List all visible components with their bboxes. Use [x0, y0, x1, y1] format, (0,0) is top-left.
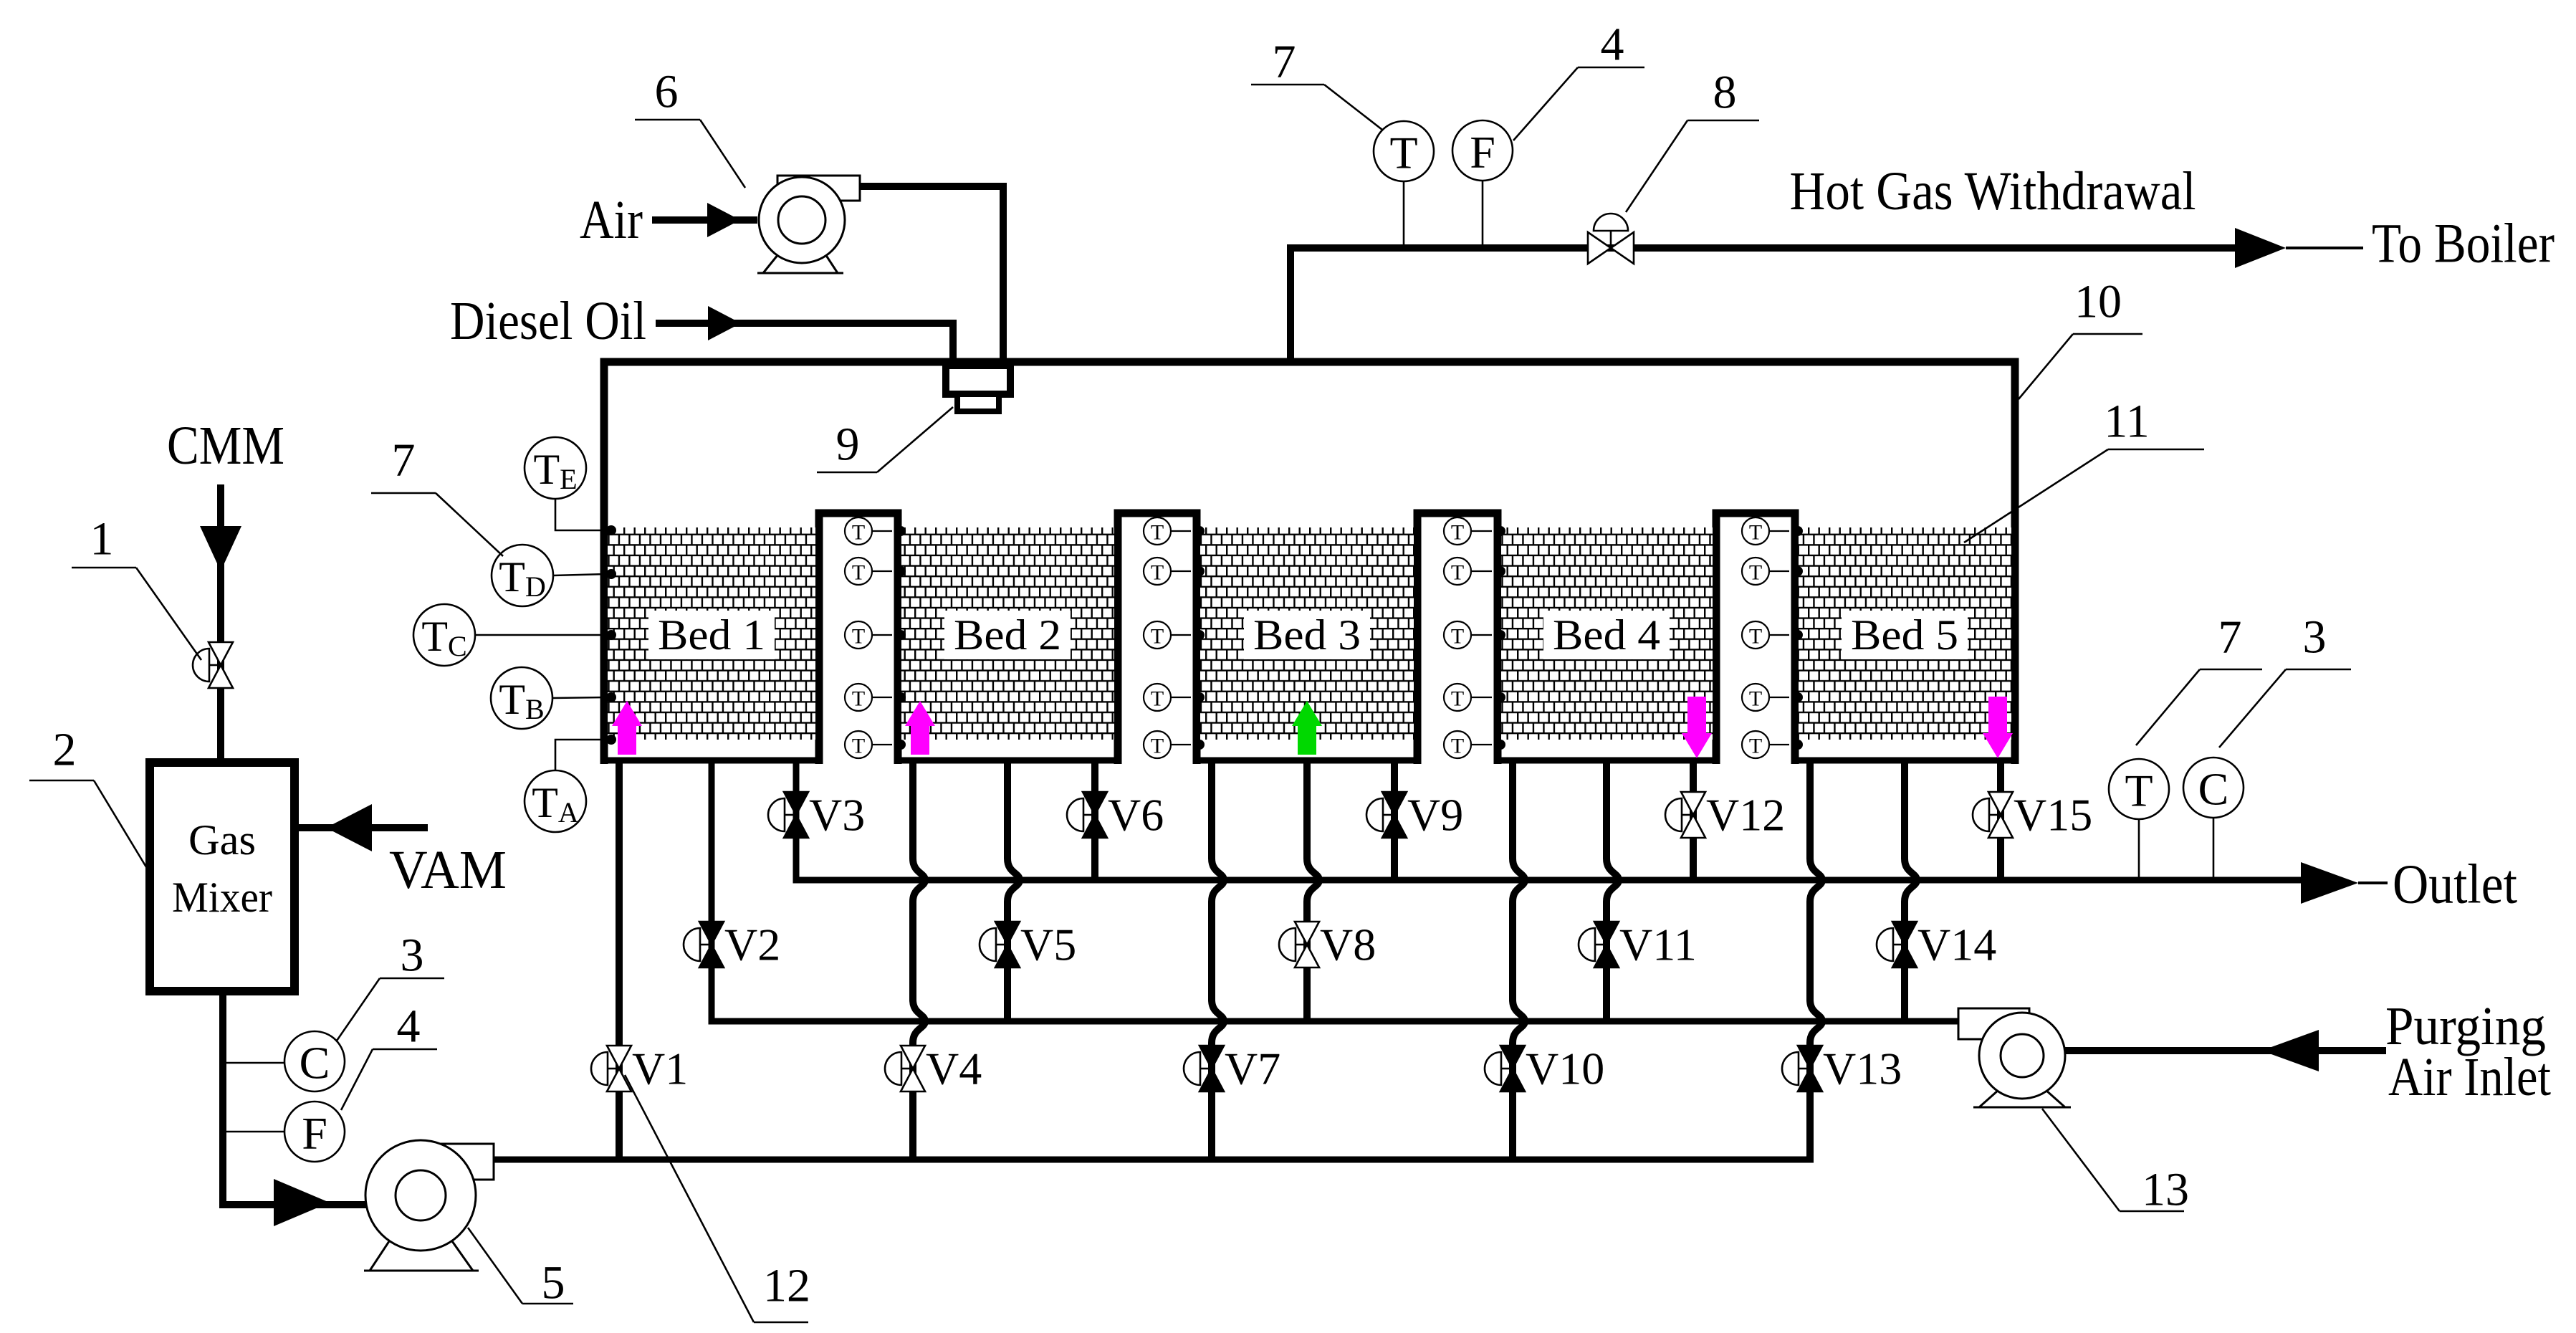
svg-text:5: 5 — [542, 1257, 565, 1309]
svg-text:Bed 5: Bed 5 — [1851, 611, 1958, 659]
svg-text:V7: V7 — [1225, 1043, 1280, 1094]
svg-text:T: T — [1749, 561, 1762, 585]
svg-text:3: 3 — [401, 930, 424, 982]
svg-text:V4: V4 — [926, 1043, 982, 1094]
svg-text:8: 8 — [1713, 67, 1737, 119]
svg-text:9: 9 — [836, 419, 860, 471]
svg-text:T: T — [1749, 687, 1762, 711]
svg-text:7: 7 — [2218, 611, 2242, 664]
svg-text:7: 7 — [1273, 36, 1296, 88]
svg-text:C: C — [300, 1038, 330, 1089]
svg-text:7: 7 — [392, 434, 416, 487]
svg-text:T: T — [1451, 625, 1464, 649]
svg-text:T: T — [1451, 561, 1464, 585]
svg-text:V13: V13 — [1823, 1043, 1902, 1094]
svg-text:Gas: Gas — [188, 816, 256, 864]
svg-text:T: T — [1389, 128, 1417, 178]
svg-text:V11: V11 — [1619, 919, 1697, 970]
svg-text:T: T — [1151, 521, 1164, 545]
svg-text:V1: V1 — [632, 1043, 688, 1094]
svg-text:V8: V8 — [1320, 919, 1376, 970]
svg-text:T: T — [2125, 765, 2153, 816]
svg-text:13: 13 — [2142, 1164, 2189, 1216]
svg-text:F: F — [302, 1108, 327, 1159]
svg-text:Outlet: Outlet — [2393, 853, 2517, 915]
svg-text:To Boiler: To Boiler — [2372, 212, 2555, 274]
svg-text:V6: V6 — [1108, 790, 1164, 841]
svg-text:10: 10 — [2074, 276, 2122, 328]
svg-text:T: T — [852, 687, 865, 711]
svg-text:F: F — [1470, 127, 1495, 178]
svg-text:Air: Air — [580, 190, 643, 250]
svg-text:T: T — [1451, 521, 1464, 545]
svg-text:T: T — [852, 735, 865, 758]
svg-text:T: T — [1151, 735, 1164, 758]
svg-text:T: T — [852, 521, 865, 545]
svg-text:T: T — [1749, 625, 1762, 649]
svg-text:T: T — [1749, 521, 1762, 545]
svg-text:C: C — [2198, 764, 2229, 815]
svg-text:V12: V12 — [1706, 790, 1785, 841]
svg-text:Air Inlet: Air Inlet — [2388, 1047, 2551, 1107]
svg-text:T: T — [1151, 561, 1164, 585]
svg-text:V10: V10 — [1526, 1043, 1604, 1094]
svg-text:Hot Gas Withdrawal: Hot Gas Withdrawal — [1790, 161, 2196, 221]
svg-text:2: 2 — [53, 724, 77, 776]
svg-text:11: 11 — [2104, 396, 2150, 448]
svg-text:T: T — [1151, 687, 1164, 711]
svg-text:T: T — [852, 625, 865, 649]
svg-text:3: 3 — [2303, 611, 2327, 664]
svg-text:V14: V14 — [1917, 919, 1996, 970]
svg-text:12: 12 — [763, 1260, 810, 1312]
svg-text:V2: V2 — [724, 919, 780, 970]
svg-text:V5: V5 — [1020, 919, 1076, 970]
svg-text:Mixer: Mixer — [172, 874, 272, 921]
svg-text:V15: V15 — [2014, 790, 2092, 841]
svg-text:T: T — [1451, 735, 1464, 758]
svg-text:Bed 4: Bed 4 — [1553, 611, 1660, 659]
svg-text:T: T — [852, 561, 865, 585]
svg-text:1: 1 — [90, 513, 114, 565]
svg-text:Bed 3: Bed 3 — [1253, 611, 1361, 659]
svg-text:6: 6 — [655, 66, 679, 118]
svg-text:Bed 1: Bed 1 — [658, 611, 765, 659]
svg-text:T: T — [1151, 625, 1164, 649]
svg-text:Bed 2: Bed 2 — [954, 611, 1061, 659]
svg-text:V9: V9 — [1407, 790, 1463, 841]
svg-text:T: T — [1451, 687, 1464, 711]
svg-text:4: 4 — [397, 1000, 421, 1053]
svg-text:Diesel Oil: Diesel Oil — [450, 291, 646, 351]
svg-text:T: T — [1749, 735, 1762, 758]
svg-text:VAM: VAM — [389, 840, 507, 900]
svg-text:V3: V3 — [809, 790, 865, 841]
svg-text:4: 4 — [1601, 19, 1624, 71]
svg-text:CMM: CMM — [167, 416, 284, 476]
